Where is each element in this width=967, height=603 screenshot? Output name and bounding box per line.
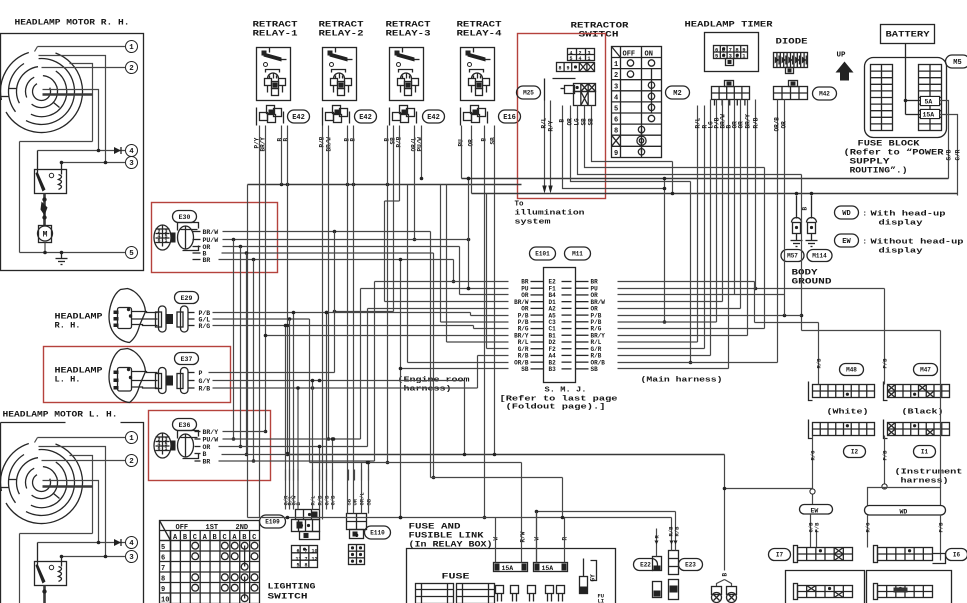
terminal 5 bbox=[126, 247, 138, 259]
relay bus wire bbox=[248, 184, 522, 186]
svg-text:PU/W: PU/W bbox=[417, 137, 424, 152]
svg-text:SB: SB bbox=[521, 366, 529, 373]
flexible link LH bbox=[43, 586, 46, 603]
bottom long wire 517 bbox=[248, 517, 672, 519]
connector I6 grid bbox=[878, 548, 933, 561]
small fuses row bbox=[496, 586, 504, 594]
long wire to fuse 15A bbox=[472, 193, 958, 195]
retract relay-1 connector bbox=[267, 106, 275, 114]
wire BR right staircase bbox=[754, 282, 756, 323]
wire M to terminal 5 bbox=[44, 243, 46, 253]
svg-text:1: 1 bbox=[588, 56, 591, 62]
retract relay-4 connector bbox=[471, 106, 479, 114]
svg-text:1: 1 bbox=[129, 435, 134, 443]
wire 664 drop bbox=[664, 179, 666, 323]
svg-text:6: 6 bbox=[614, 117, 618, 125]
connector I2 grid bbox=[813, 423, 875, 436]
wire 334 drop bbox=[334, 232, 336, 373]
retract relay-3 internals bbox=[395, 51, 400, 56]
fuse block right ladder bbox=[919, 65, 942, 131]
retract relay-3 connector bbox=[400, 106, 408, 114]
svg-text:R/B: R/B bbox=[674, 526, 681, 537]
svg-text:Without head-up: Without head-up bbox=[871, 239, 965, 247]
WD pill bbox=[865, 506, 946, 516]
SMJ right row feeds bbox=[618, 281, 755, 283]
svg-text:4: 4 bbox=[579, 56, 582, 62]
svg-text:E30: E30 bbox=[179, 214, 191, 221]
wire motor center to relay bbox=[43, 90, 99, 151]
svg-text:2: 2 bbox=[129, 65, 134, 73]
svg-text:1: 1 bbox=[614, 61, 618, 69]
E22 lower component bbox=[653, 582, 662, 598]
svg-text::: : bbox=[863, 211, 868, 219]
svg-text:M5: M5 bbox=[953, 59, 961, 67]
svg-text:E110: E110 bbox=[370, 530, 385, 537]
wire retractor bends bbox=[563, 156, 665, 189]
svg-text:5: 5 bbox=[614, 106, 618, 114]
connector M57 label bbox=[781, 250, 804, 262]
svg-text:R/G: R/G bbox=[865, 522, 872, 533]
wire E36 OR bbox=[219, 446, 368, 448]
svg-text:M114: M114 bbox=[812, 253, 827, 260]
svg-text:6: 6 bbox=[158, 238, 161, 244]
EW pill bbox=[800, 505, 833, 515]
svg-text:DIODE: DIODE bbox=[776, 38, 808, 47]
terminal 2 LH bbox=[126, 455, 138, 467]
wire E37 P bbox=[209, 372, 335, 374]
fuse 15A bbox=[921, 110, 940, 119]
instrument big box 2 bbox=[867, 571, 952, 603]
svg-text:R/G: R/G bbox=[199, 323, 211, 330]
connector E109 label bbox=[260, 515, 286, 528]
E110 connector bbox=[347, 514, 367, 530]
svg-text:(Main harness): (Main harness) bbox=[641, 377, 723, 385]
svg-text:SB: SB bbox=[591, 366, 599, 373]
terminal 4 LH bbox=[126, 537, 138, 549]
wires motor LH bbox=[38, 437, 126, 439]
long wire SB to fuse 5A bbox=[462, 178, 949, 180]
diode D motor LH bbox=[114, 539, 121, 546]
svg-text:ROUTING”.): ROUTING”.) bbox=[850, 167, 908, 176]
E36 wire labels bbox=[195, 431, 201, 433]
svg-text:15A: 15A bbox=[923, 112, 935, 119]
svg-text:BODY: BODY bbox=[792, 269, 818, 278]
bundle wire BR down bbox=[253, 260, 255, 462]
svg-text:12: 12 bbox=[312, 557, 318, 563]
ground symbol M57 bbox=[796, 234, 798, 241]
headlamp timer tab bbox=[726, 59, 734, 66]
wire E36 PU/W bbox=[223, 438, 361, 440]
svg-text:3: 3 bbox=[614, 83, 618, 91]
svg-text:E109: E109 bbox=[265, 519, 280, 526]
svg-text:LI: LI bbox=[598, 598, 605, 603]
svg-text:B: B bbox=[722, 573, 729, 577]
wire to terminal 3 bbox=[62, 162, 126, 164]
svg-text:RETRACT: RETRACT bbox=[457, 21, 502, 30]
svg-text:E16: E16 bbox=[503, 114, 516, 122]
svg-text:M48: M48 bbox=[846, 367, 857, 374]
svg-text:SB: SB bbox=[490, 137, 497, 145]
svg-text:SWITCH: SWITCH bbox=[268, 593, 308, 602]
svg-text:5: 5 bbox=[570, 56, 573, 62]
connector I1 label bbox=[914, 446, 936, 458]
connector E101 label bbox=[530, 247, 556, 260]
bottom wire 511 bbox=[537, 511, 676, 513]
svg-text:OR: OR bbox=[738, 121, 745, 129]
svg-text:RETRACTOR: RETRACTOR bbox=[571, 22, 629, 31]
svg-text:BR/W: BR/W bbox=[203, 229, 219, 236]
svg-text:With head-up: With head-up bbox=[871, 211, 947, 219]
wire arc to vertical bbox=[39, 56, 106, 163]
svg-text:R/G: R/G bbox=[810, 450, 817, 461]
wire 801-940 to WD bbox=[802, 330, 941, 332]
red highlight box E37 bbox=[44, 347, 231, 403]
svg-text:I1: I1 bbox=[921, 449, 929, 456]
svg-text:BR/Y: BR/Y bbox=[745, 114, 752, 129]
svg-text:S. M. J.: S. M. J. bbox=[545, 387, 587, 395]
diode tab bbox=[786, 68, 794, 74]
terminal 1 LH bbox=[126, 432, 138, 444]
lighting switch connector cluster bbox=[296, 510, 320, 520]
wire E37 G/Y bbox=[213, 380, 465, 382]
svg-text:[Refer to last page: [Refer to last page bbox=[500, 396, 619, 404]
svg-text:P: P bbox=[199, 370, 203, 377]
svg-text:I6: I6 bbox=[953, 552, 961, 559]
connector E36 drawing bbox=[154, 433, 171, 458]
svg-text:UP: UP bbox=[837, 52, 847, 60]
connector E29 label bbox=[175, 292, 199, 304]
svg-text:OR: OR bbox=[781, 121, 788, 129]
relay box outline bbox=[407, 549, 616, 603]
connector I7 grid bbox=[798, 548, 853, 561]
connector I6 label bbox=[946, 549, 967, 561]
svg-text:M25: M25 bbox=[523, 90, 534, 97]
big fuse box 1 bbox=[416, 584, 454, 603]
wire R1 pins down bbox=[259, 126, 261, 518]
svg-text:GY: GY bbox=[590, 574, 597, 582]
svg-text:(Black): (Black) bbox=[902, 409, 944, 417]
retractor switch red highlight box bbox=[518, 34, 606, 199]
SMJ box bbox=[544, 268, 576, 383]
bundle wire PU/W down bbox=[233, 240, 235, 440]
wire 801 drop bbox=[801, 175, 803, 331]
terminal 4 bbox=[126, 145, 138, 157]
svg-text:OR: OR bbox=[567, 118, 574, 126]
svg-text:15A: 15A bbox=[502, 565, 514, 572]
svg-text:E42: E42 bbox=[359, 114, 372, 122]
lighting switch link lines bbox=[244, 546, 246, 567]
wire long 477 drop bbox=[562, 478, 564, 518]
retractor switch contact table bbox=[612, 47, 662, 158]
headlamp R.H. bulb bbox=[109, 289, 145, 343]
headlamp L.H. bulb bbox=[109, 349, 145, 403]
svg-text:LG: LG bbox=[574, 118, 581, 126]
svg-text:SWITCH: SWITCH bbox=[579, 31, 619, 40]
svg-text:4: 4 bbox=[129, 148, 134, 156]
svg-text:R/W: R/W bbox=[520, 531, 527, 542]
wire battery to fuses bbox=[906, 100, 921, 102]
svg-text:(White): (White) bbox=[827, 409, 869, 417]
E110 aux grid bbox=[349, 545, 365, 565]
connector M2 label bbox=[666, 86, 690, 99]
svg-text:harness): harness) bbox=[404, 386, 452, 394]
svg-text:HEADLAMP TIMER: HEADLAMP TIMER bbox=[685, 21, 773, 30]
wire E36 BR bbox=[219, 460, 375, 462]
svg-text:P/B: P/B bbox=[882, 450, 889, 461]
bundle wire OR down bbox=[240, 247, 242, 447]
WD note bbox=[835, 206, 859, 219]
svg-text:BR: BR bbox=[203, 257, 211, 264]
svg-text:EW: EW bbox=[842, 238, 851, 246]
svg-text:SB: SB bbox=[581, 118, 588, 126]
svg-text:4: 4 bbox=[129, 540, 134, 548]
svg-text:BATTERY: BATTERY bbox=[886, 31, 930, 40]
connector I2 label bbox=[844, 446, 866, 458]
svg-text:PU/W: PU/W bbox=[203, 237, 219, 244]
diode D motor RH bbox=[114, 147, 121, 154]
svg-text:10: 10 bbox=[312, 549, 318, 555]
switch table circles bbox=[627, 60, 633, 66]
connector M42 label bbox=[813, 87, 837, 100]
connector M47 label bbox=[914, 364, 938, 376]
svg-text:FUSE AND: FUSE AND bbox=[409, 523, 461, 532]
svg-text:BR/Y: BR/Y bbox=[203, 429, 219, 436]
instrument big box 1 bbox=[786, 571, 865, 603]
wire E30 BR bbox=[219, 259, 454, 261]
wire E37 R/B bbox=[213, 387, 478, 389]
connector I1 grid bbox=[888, 423, 950, 436]
terminal 3 bbox=[126, 157, 138, 169]
connector E36 label bbox=[173, 419, 197, 431]
wire EW feed bbox=[725, 488, 813, 490]
E23 component bbox=[669, 551, 679, 575]
svg-text:system: system bbox=[515, 219, 552, 227]
retract relay-1 internals bbox=[262, 51, 267, 56]
big fuse box 2 bbox=[457, 584, 495, 603]
fusible link 15A no1 bbox=[494, 563, 528, 572]
svg-text:E101: E101 bbox=[535, 251, 550, 258]
fuse 5A bbox=[921, 97, 940, 106]
diode connector bbox=[789, 81, 798, 87]
svg-text:B: B bbox=[283, 138, 290, 142]
relay contact arm bbox=[37, 151, 39, 173]
wire bus left drop bbox=[247, 185, 249, 518]
svg-text:B3: B3 bbox=[549, 366, 557, 373]
bulb pair wire bbox=[288, 454, 725, 456]
wire to terminal 4 with diode bbox=[38, 150, 126, 152]
diode block bbox=[774, 53, 808, 68]
svg-text:3: 3 bbox=[129, 160, 134, 168]
svg-text:10: 10 bbox=[161, 597, 169, 603]
retract relay-2 connector bbox=[333, 106, 341, 114]
connector M114 label bbox=[807, 250, 832, 262]
wire 764 drop bbox=[764, 168, 766, 329]
E22 component bbox=[653, 557, 662, 571]
connector E37 drawing bbox=[159, 368, 167, 394]
svg-text:RELAY-3: RELAY-3 bbox=[386, 30, 431, 39]
svg-text:S/B: S/B bbox=[946, 149, 953, 160]
wire E36 BR/Y bbox=[223, 431, 266, 433]
svg-text:To: To bbox=[515, 201, 525, 209]
svg-text:WD: WD bbox=[900, 509, 908, 516]
svg-text:6: 6 bbox=[158, 446, 161, 452]
svg-text:E42: E42 bbox=[292, 114, 305, 122]
svg-text:E42: E42 bbox=[427, 114, 440, 122]
wire E36 B bbox=[222, 454, 288, 456]
bulb right bbox=[727, 587, 737, 595]
wire to terminal 1 bbox=[38, 46, 126, 48]
svg-text:E23: E23 bbox=[685, 562, 696, 569]
svg-text:harness): harness) bbox=[901, 478, 949, 486]
timer wire drops bbox=[697, 134, 699, 343]
battery wire bbox=[905, 44, 907, 115]
headlamp motor L.H. enclosure bbox=[1, 422, 66, 424]
svg-text:RETRACT: RETRACT bbox=[319, 21, 364, 30]
wire E29 R/G bbox=[213, 325, 474, 327]
retractor switch connector lower bbox=[574, 84, 596, 92]
node EW bbox=[810, 489, 815, 494]
svg-text:E36: E36 bbox=[179, 422, 191, 429]
wire inner arc to vertical bbox=[70, 64, 93, 142]
connector M5 label bbox=[946, 55, 967, 68]
svg-text:BR: BR bbox=[203, 459, 211, 466]
instrument box1 grid bbox=[798, 586, 853, 598]
svg-text:RELAY-4: RELAY-4 bbox=[457, 30, 502, 39]
svg-text:EW: EW bbox=[811, 508, 819, 515]
svg-text:2: 2 bbox=[735, 53, 738, 60]
svg-text:9: 9 bbox=[567, 66, 570, 72]
wire M47 P/B bbox=[884, 289, 886, 385]
svg-text:5A: 5A bbox=[925, 99, 933, 106]
wire E30 OR bbox=[223, 246, 460, 248]
svg-text:M57: M57 bbox=[787, 253, 798, 260]
svg-text:display: display bbox=[879, 248, 924, 256]
svg-text:R/L: R/L bbox=[695, 117, 702, 128]
svg-text:M42: M42 bbox=[819, 91, 830, 98]
retract relay-4 box bbox=[461, 48, 495, 101]
svg-text:3: 3 bbox=[129, 554, 134, 562]
svg-text:G/Y: G/Y bbox=[199, 378, 211, 385]
svg-text:5: 5 bbox=[129, 250, 134, 258]
svg-text:RELAY-2: RELAY-2 bbox=[319, 30, 364, 39]
wire EW to I7 bbox=[810, 514, 812, 548]
svg-text:I2: I2 bbox=[851, 449, 859, 456]
svg-text:8: 8 bbox=[559, 66, 562, 72]
fusible link leads bbox=[495, 518, 497, 563]
headlamp timer box bbox=[705, 33, 759, 72]
svg-text:WD: WD bbox=[842, 210, 850, 218]
svg-text:E37: E37 bbox=[181, 356, 193, 363]
svg-text:R/B: R/B bbox=[199, 386, 211, 393]
svg-text:15A: 15A bbox=[542, 565, 554, 572]
svg-text:6: 6 bbox=[297, 549, 300, 555]
headlamp motor L.H. spiral bbox=[6, 444, 83, 524]
red highlight box E36 bbox=[149, 411, 271, 481]
svg-text:4: 4 bbox=[614, 94, 618, 102]
motor M R.H. bbox=[39, 226, 52, 243]
connector M25 label bbox=[517, 86, 541, 99]
battery box bbox=[881, 25, 935, 44]
connector label E16 relay-4 bbox=[499, 110, 521, 123]
svg-text:OR: OR bbox=[352, 498, 359, 505]
retract relay-2 internals bbox=[328, 51, 333, 56]
wire into WD pill bbox=[884, 488, 886, 490]
retract relay-3 box bbox=[390, 48, 424, 101]
wire WD legs bbox=[867, 515, 869, 548]
svg-text:illumination: illumination bbox=[515, 210, 586, 218]
svg-text:(Refer to “POWER: (Refer to “POWER bbox=[844, 149, 944, 158]
wire 690 drop bbox=[690, 182, 692, 363]
bundle wire B down bbox=[246, 253, 248, 455]
flexible link bbox=[43, 194, 46, 226]
M25 connector bracket bbox=[544, 79, 546, 101]
wire 468 riser bbox=[468, 179, 470, 289]
svg-text:RELAY-1: RELAY-1 bbox=[253, 30, 298, 39]
wire arc2 to terminal 2 bbox=[42, 67, 126, 69]
svg-text:RETRACT: RETRACT bbox=[253, 21, 298, 30]
relay coil bbox=[61, 163, 63, 175]
retractor switch pin wires bbox=[562, 106, 564, 156]
svg-text:1: 1 bbox=[165, 238, 168, 244]
svg-text:2ND: 2ND bbox=[236, 524, 249, 532]
wire E29 P/B bbox=[213, 312, 471, 314]
GY fusible link component bbox=[580, 577, 588, 594]
headlamp timer connector bbox=[725, 81, 734, 87]
svg-text:B: B bbox=[559, 119, 566, 123]
connector E30 drawing bbox=[154, 225, 171, 250]
E23 lower component bbox=[669, 580, 679, 600]
svg-text:HEADLAMP: HEADLAMP bbox=[55, 313, 103, 322]
svg-text:FUSE BLOCK: FUSE BLOCK bbox=[858, 140, 920, 149]
svg-text:FUSIBLE LINK: FUSIBLE LINK bbox=[409, 532, 484, 541]
svg-text:PU/W: PU/W bbox=[203, 437, 219, 444]
svg-text:1: 1 bbox=[165, 446, 168, 452]
svg-text:B: B bbox=[802, 207, 809, 211]
svg-text:M47: M47 bbox=[920, 367, 931, 374]
svg-text:LIGHTING: LIGHTING bbox=[268, 583, 316, 592]
instrument box2 grid bbox=[878, 586, 933, 598]
lighting switch circles bbox=[192, 542, 199, 549]
svg-text:OR: OR bbox=[203, 444, 211, 451]
wire R3 pins down bbox=[387, 126, 389, 463]
wire E30 PU/W bbox=[223, 239, 469, 241]
retract relay-4 internals bbox=[466, 51, 471, 56]
SMJ left row feeds bbox=[375, 281, 509, 283]
svg-text:8: 8 bbox=[614, 128, 618, 136]
lighting switch aux grid bbox=[292, 546, 318, 568]
svg-text:GROUND: GROUND bbox=[792, 278, 832, 287]
svg-text:7: 7 bbox=[305, 549, 308, 555]
wire E30 BR/W bbox=[223, 231, 431, 233]
svg-text:5: 5 bbox=[297, 563, 300, 569]
wire motor center thick bbox=[43, 93, 93, 96]
svg-text:SUPPLY: SUPPLY bbox=[850, 158, 890, 167]
node WD bbox=[882, 484, 887, 489]
connector label E42 relay-1 bbox=[288, 110, 310, 123]
svg-text:HEADLAMP MOTOR L. H.: HEADLAMP MOTOR L. H. bbox=[3, 411, 118, 420]
connector E37 label bbox=[175, 353, 199, 365]
svg-text:1ST: 1ST bbox=[206, 524, 219, 532]
svg-text:R/B: R/B bbox=[753, 117, 760, 128]
E110 riser wires bbox=[361, 463, 363, 514]
relay box motor RH bbox=[35, 170, 67, 194]
svg-text:2: 2 bbox=[614, 72, 618, 80]
lighting switch riser wires bbox=[285, 326, 287, 510]
svg-text:M2: M2 bbox=[673, 90, 681, 98]
svg-text:OR/B: OR/B bbox=[774, 117, 781, 132]
svg-text:L. H.: L. H. bbox=[55, 376, 81, 385]
terminal 2 bbox=[126, 62, 138, 74]
